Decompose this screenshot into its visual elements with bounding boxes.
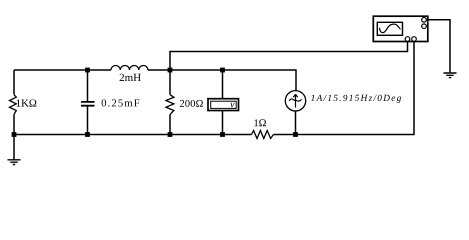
current source I1 circle [285,91,305,111]
capacitor C1 plates [81,102,95,106]
junction dot R2 top [168,68,173,73]
oscilloscope screen sine [379,24,400,33]
wire current source bottom [295,111,297,135]
resistor R3 zigzag 1Ω [252,131,274,139]
junction dot voltmeter top [220,68,225,73]
wire voltmeter bottom [222,111,224,135]
wire to current source top [295,69,297,91]
wire voltmeter top [222,70,224,99]
oscilloscope right terminal 2 [422,24,427,29]
resistor R2 label 200Ω [180,100,203,107]
junction dot source bottom [293,132,298,137]
voltmeter label v [230,103,234,108]
current source tilde [289,99,301,101]
resistor R3 label 1Ω [254,119,265,126]
wire R2 bottom [169,115,171,135]
wire scope A down-left to R2 [170,41,408,95]
wire top rail right [148,69,296,71]
voltmeter inner box [211,101,237,108]
wire top rail left [14,69,111,71]
resistor R2 zigzag [166,95,174,115]
wire capacitor top [87,70,89,101]
wire left branch bottom + ground stem [13,115,15,160]
current source arrow [293,94,297,107]
wire bottom rail left [14,134,252,136]
junction dot R2 bottom [168,132,173,137]
wire left branch top [13,70,15,95]
voltmeter U1 outer box [208,99,239,111]
wire capacitor bottom [87,106,89,134]
inductor label 2mH [120,74,141,81]
ground right [444,73,457,78]
junction dot voltmeter bottom [220,132,225,137]
current source label [311,95,401,103]
ground left [8,160,21,165]
junction dot capacitor top [85,68,90,73]
oscilloscope XSC1 body [373,16,428,41]
oscilloscope right terminal 1 [422,18,427,23]
resistor R1 zigzag [10,95,17,115]
oscilloscope screen [377,22,402,35]
junction dot left bottom [12,132,17,137]
junction dot capacitor bottom [85,132,90,137]
capacitor label 0.25mF [102,99,140,106]
oscilloscope bottom terminal B [412,37,417,42]
oscilloscope bottom terminal A [405,37,410,42]
resistor R1 label 1KΩ [17,99,37,106]
wire scope ground [426,20,450,73]
wire bottom rail right [274,41,415,135]
inductor L1 [111,65,148,70]
